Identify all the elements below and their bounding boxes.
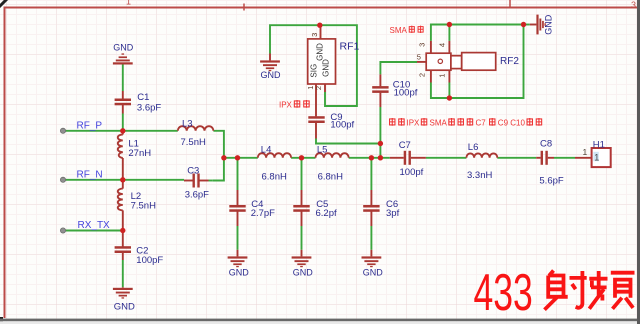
svg-text:L4: L4 [261, 144, 272, 155]
wire RF1 ground loop [270, 25, 357, 106]
inductor L4 [258, 144, 291, 182]
svg-text:C9 C10: C9 C10 [498, 118, 526, 127]
ground under C6 [362, 250, 384, 278]
wire C10 bottom [379, 107, 381, 144]
svg-text:SMA: SMA [390, 26, 408, 35]
svg-text:SMA: SMA [430, 118, 448, 127]
svg-text:6.2pf: 6.2pf [316, 208, 337, 219]
svg-text:100pF: 100pF [136, 255, 163, 266]
svg-text:1: 1 [126, 0, 131, 7]
capacitor C3 [184, 166, 212, 201]
inductor L1 [118, 131, 151, 180]
svg-text:1: 1 [594, 153, 599, 163]
wire RF_N horizontal [63, 179, 184, 181]
wire C10 top to RF2 pin5 [380, 62, 417, 74]
svg-text:GND: GND [293, 268, 314, 278]
svg-text:RF2: RF2 [500, 56, 519, 67]
wire main line segment 3 [349, 157, 390, 159]
ground B left of RF1 [260, 54, 281, 81]
svg-text:3pf: 3pf [386, 208, 400, 219]
wire node to main line [379, 144, 381, 158]
wire RF2 ground loop [431, 25, 524, 99]
bottom gray bar [0, 319, 640, 322]
ground under C2 [113, 287, 135, 312]
wire C6 to GND [370, 226, 372, 250]
svg-text:2.7pF: 2.7pF [251, 208, 275, 219]
svg-text:SIG: SIG [310, 64, 319, 78]
wire C5 to GND [301, 226, 303, 250]
svg-text:7.5nH: 7.5nH [181, 137, 206, 148]
svg-text:100pf: 100pf [394, 87, 418, 98]
svg-text:IPX: IPX [407, 118, 421, 127]
svg-text:GND: GND [322, 59, 331, 77]
ground A above C1 (flipped up) [113, 42, 134, 64]
ground under C4 [228, 250, 250, 278]
wire RX_TX horizontal [63, 230, 123, 232]
connector RF2 [417, 41, 520, 83]
capacitor C6 [363, 190, 399, 226]
wire C2 to GND [122, 260, 124, 287]
connector RF1 [306, 25, 359, 92]
capacitor C10 [372, 74, 418, 107]
svg-text:3.6pF: 3.6pF [137, 102, 161, 113]
junction node RF2 pin1 [447, 95, 452, 100]
inductor L5 [316, 144, 349, 182]
svg-text:3.3nH: 3.3nH [467, 170, 492, 181]
svg-text:RF_N: RF_N [77, 170, 103, 181]
wire main line segment 4 [426, 157, 467, 159]
junction node RF_P / C1 / L1 [120, 128, 125, 133]
wire RF2 pin4 stub [448, 25, 450, 41]
title glyph 频 [589, 271, 634, 309]
svg-text:5: 5 [417, 53, 421, 62]
svg-text:GND: GND [113, 42, 134, 52]
junction node RF2 GND corner [521, 22, 526, 27]
ground under C5 [292, 250, 314, 278]
svg-text:GND: GND [363, 268, 384, 278]
svg-text:3: 3 [310, 33, 319, 37]
junction node RX_TX / L2 / C2 [120, 228, 125, 233]
connector H1 [575, 139, 611, 167]
svg-text:6.8nH: 6.8nH [262, 171, 287, 182]
junction node C4 tap [235, 155, 240, 160]
svg-text:100pf: 100pf [330, 120, 354, 131]
junction node C9/C10 tap on main line [378, 155, 383, 160]
svg-text:2: 2 [314, 86, 323, 90]
svg-text:L3: L3 [182, 118, 193, 129]
svg-text:C7: C7 [476, 118, 487, 127]
svg-text:RX_TX: RX_TX [78, 220, 111, 231]
wire main line segment 1 [224, 157, 258, 159]
inductor L3 [178, 118, 214, 147]
svg-text:3: 3 [418, 43, 427, 47]
border tick x=244 [243, 4, 245, 11]
unconnected pin dot RF_N [60, 177, 65, 182]
wire RF_P horizontal [63, 130, 178, 132]
svg-text:RF_P: RF_P [77, 121, 103, 132]
junction node L3/C3 branch to main line [221, 155, 226, 160]
svg-text:4: 4 [438, 43, 447, 47]
svg-text:27nH: 27nH [128, 148, 151, 159]
black corner mark bottom-left [0, 317, 3, 324]
unconnected pin dot RF_P [60, 128, 65, 133]
wire C5 branch top [301, 158, 303, 190]
junction node RF2 pin4 GND [447, 22, 452, 27]
svg-text:C8: C8 [540, 139, 552, 150]
svg-text:3.6pF: 3.6pF [185, 190, 209, 201]
wire main line segment 2 [291, 157, 315, 159]
wire C8 to H1 [554, 157, 575, 159]
wire C9 bottom to node [316, 139, 380, 144]
svg-text:5.6pF: 5.6pF [539, 176, 563, 187]
svg-text:1: 1 [438, 74, 447, 78]
wire C1 branch above RF_P [122, 114, 124, 131]
junction node C9 to C10 [378, 141, 383, 146]
svg-text:GND: GND [544, 14, 554, 35]
capacitor C1 [115, 91, 162, 114]
junction node C5 tap [299, 155, 304, 160]
svg-text:7.5nH: 7.5nH [131, 200, 156, 211]
capacitor C8 [536, 139, 564, 187]
inductor L2 [118, 180, 156, 231]
title glyph 射 [545, 271, 587, 310]
svg-text:433: 433 [474, 264, 533, 321]
capacitor C7 [390, 140, 426, 178]
svg-text:2: 2 [418, 73, 427, 77]
wire C6 branch top [370, 158, 372, 190]
inductor L6 [466, 142, 497, 181]
junction node RF_N / L1 / L2 [120, 177, 125, 182]
svg-text:100pf: 100pf [400, 167, 424, 178]
svg-text:6.8nH: 6.8nH [318, 171, 343, 182]
svg-text:L6: L6 [468, 142, 479, 153]
svg-text:1: 1 [583, 147, 588, 157]
red note test swap instruction [389, 118, 542, 127]
wire GND C stub [524, 24, 530, 26]
red note SMA connector [390, 26, 424, 35]
wire GND A to C1 [122, 64, 124, 91]
svg-text:GND: GND [261, 70, 282, 80]
svg-text:GND: GND [316, 43, 325, 61]
unconnected pin dot RX_TX [60, 228, 65, 233]
svg-text:3: 3 [631, 0, 636, 10]
wire main line segment 5 [497, 157, 536, 159]
capacitor C9 [308, 92, 354, 139]
svg-text:L5: L5 [317, 144, 328, 155]
junction node RF1 pin3 GND [317, 23, 322, 28]
wire C4 branch top [237, 158, 239, 190]
capacitor C2 [115, 231, 164, 267]
black corner mark top-left [0, 0, 7, 7]
svg-text:C3: C3 [187, 166, 199, 177]
wire L3 right elbow down to C3 [212, 131, 224, 181]
junction node C6 tap [369, 155, 374, 160]
border tick x=510 [509, 0, 511, 8]
svg-text:IPX: IPX [279, 100, 293, 109]
capacitor C5 [293, 190, 337, 226]
ground C right of RF2 (rotated) [530, 14, 554, 35]
red note IPX connector [279, 100, 310, 109]
capacitor C4 [229, 190, 275, 226]
svg-text:C7: C7 [399, 140, 411, 151]
svg-text:GND: GND [114, 301, 135, 312]
svg-text:RF1: RF1 [340, 41, 360, 53]
svg-text:H1: H1 [593, 139, 605, 150]
svg-text:GND: GND [229, 268, 250, 278]
wire RF2 pin1 stub [448, 83, 450, 99]
wire C4 to GND [237, 226, 239, 250]
right dark edge [637, 0, 640, 324]
